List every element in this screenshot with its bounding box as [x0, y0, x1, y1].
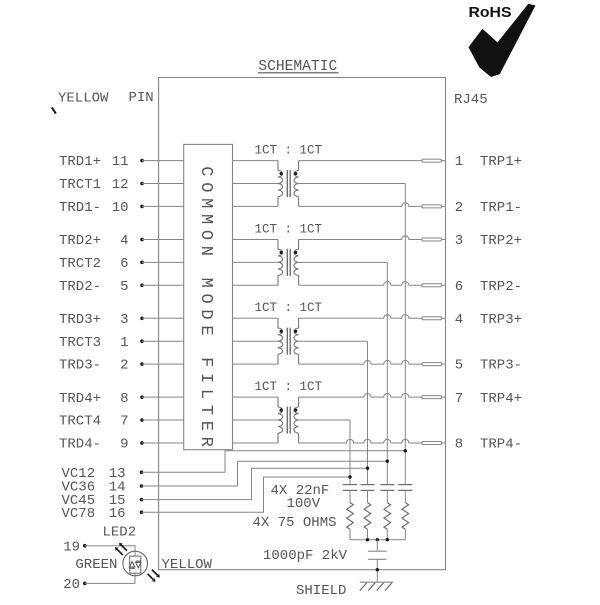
wire termination rail: [350, 539, 405, 541]
wire filter to T2 primary bottom: [233, 284, 279, 286]
svg-text:TRP1-: TRP1-: [480, 200, 522, 216]
svg-text:2: 2: [455, 200, 463, 216]
wire T1 secondary top to RJ45: [299, 160, 422, 162]
wire filter to T1 primary CT: [233, 183, 282, 185]
wire T1 secondary CT: [296, 183, 406, 185]
node pin 20 dot: [83, 582, 87, 586]
wire T3 secondary bottom to RJ45: [299, 361, 422, 365]
pin label TRCT4: [59, 414, 101, 430]
svg-text:2: 2: [120, 358, 128, 374]
pin number 6 (RJ45): [455, 279, 463, 295]
svg-text:1CT : 1CT: 1CT : 1CT: [255, 222, 323, 236]
svg-text:19: 19: [63, 539, 80, 555]
label YELLOW (bottom): [162, 557, 213, 573]
pin label TRD4+: [59, 391, 101, 407]
svg-text:TRCT3: TRCT3: [59, 335, 101, 351]
wire pin 11 (TRD1+) to filter: [142, 160, 184, 162]
wire pin 6 (TRCT2) to filter: [142, 261, 184, 263]
node TRCT3 pin dot: [140, 339, 144, 343]
value 1CT : 1CT (T4): [255, 380, 323, 394]
LED LED2 (bi-color): [123, 551, 148, 576]
wire T3 CT bus (vertical): [367, 341, 369, 484]
pin label TRD4-: [59, 437, 101, 453]
label PIN: [129, 90, 154, 106]
schematic title: [258, 59, 339, 75]
resistor R1 75 OHM: [402, 503, 409, 540]
RJ45 pad pin 2: [422, 205, 446, 208]
svg-text:7: 7: [120, 414, 128, 430]
pin number 5 (RJ45): [455, 358, 463, 374]
pin label VC78: [62, 506, 96, 522]
wire T2 secondary top to RJ45: [299, 236, 422, 240]
wire pin 10 (TRD1-) to filter: [142, 205, 184, 207]
wire T2 secondary bottom to RJ45: [299, 282, 422, 286]
pin number 14: [109, 480, 126, 496]
svg-text:TRD1-: TRD1-: [59, 200, 101, 216]
pin number 20: [63, 577, 80, 593]
svg-text:TRD3-: TRD3-: [59, 358, 101, 374]
node TRCT4 pin dot: [140, 418, 144, 422]
transformer T3: [278, 318, 299, 364]
RoHS logo: [469, 4, 536, 77]
pin label VC12: [62, 466, 96, 482]
transformer T2: [278, 239, 299, 285]
value 4X 22nF: [271, 483, 330, 499]
RJ45 pad pin 1: [422, 159, 446, 162]
label TRP4+: [480, 391, 522, 407]
pin number 12: [112, 177, 129, 193]
label TRP1+: [480, 154, 522, 170]
svg-text:1CT : 1CT: 1CT : 1CT: [255, 143, 323, 157]
value 4X 75 OHMS: [253, 515, 337, 531]
pin number 16: [109, 506, 126, 522]
value 1CT : 1CT (T2): [255, 222, 323, 236]
label SHIELD: [296, 583, 346, 599]
pin label TRD3-: [59, 358, 101, 374]
capacitor C3 22nF: [361, 485, 375, 503]
capacitor C2 22nF: [380, 485, 394, 503]
resistor R4 75 OHM: [347, 503, 354, 540]
wire filter to T3 primary bottom: [233, 363, 279, 365]
svg-text:3: 3: [455, 233, 463, 249]
capacitor C5 1000pF 2kV: [368, 540, 386, 583]
node TRD2+ pin dot: [140, 238, 144, 242]
node VC36 pin dot: [140, 484, 144, 488]
pin label TRCT2: [59, 256, 101, 272]
svg-text:12: 12: [112, 177, 129, 193]
node VC45 pin dot: [140, 498, 144, 502]
svg-text:TRP4+: TRP4+: [480, 391, 522, 407]
pin label TRCT1: [59, 177, 101, 193]
pin number 3: [120, 312, 128, 328]
svg-text:3: 3: [120, 312, 128, 328]
label RJ45: [454, 92, 488, 108]
wire pin 20 to LED2: [85, 573, 135, 583]
wire T1 CT bus (vertical): [404, 184, 406, 485]
pin number 4: [120, 233, 128, 249]
wire pin 1 (TRCT3) to filter: [142, 340, 184, 342]
svg-text:4: 4: [455, 312, 463, 328]
wire filter to T4 primary bottom: [233, 442, 279, 444]
label TRP2+: [480, 233, 522, 249]
wire filter to T2 primary top: [233, 238, 279, 240]
RJ45 pad pin 8: [422, 441, 446, 444]
wire pin 7 (TRCT4) to filter: [142, 419, 184, 421]
junction shield net on box edge: [376, 568, 379, 571]
label TRP3-: [480, 358, 522, 374]
pin label TRD2+: [59, 233, 101, 249]
pin number 13: [109, 466, 126, 482]
wire pin 12 (TRCT1) to filter: [142, 183, 184, 185]
RJ45 pad pin 4: [422, 317, 446, 320]
RJ45 pad pin 5: [422, 363, 446, 366]
value 1CT : 1CT (T3): [255, 301, 323, 315]
pin number 9: [120, 437, 128, 453]
svg-text:VC78: VC78: [62, 506, 96, 522]
svg-text:9: 9: [120, 437, 128, 453]
svg-text:SHIELD: SHIELD: [296, 583, 346, 599]
pin label TRD2-: [59, 279, 101, 295]
wire pin 3 (TRD3+) to filter: [142, 317, 184, 319]
wire T1 secondary bottom to RJ45: [299, 203, 422, 207]
svg-text:RoHS: RoHS: [469, 5, 512, 21]
node pin 19 dot: [83, 544, 87, 548]
label GREEN: [75, 557, 117, 573]
node TRD4+ pin dot: [140, 395, 144, 399]
pin number 2 (RJ45): [455, 200, 463, 216]
label TRP4-: [480, 437, 522, 453]
svg-text:TRCT2: TRCT2: [59, 256, 101, 272]
node VC78 pin dot: [140, 510, 144, 514]
pin number 19: [63, 539, 80, 555]
node TRD3- pin dot: [140, 362, 144, 366]
wire filter to T3 primary CT: [233, 340, 282, 342]
transformer T4: [278, 397, 299, 443]
svg-text:100V: 100V: [287, 496, 321, 512]
junction rail-bus3: [386, 538, 389, 541]
LED2 green emission arrows: [115, 543, 127, 555]
pin label LED2: [103, 524, 137, 540]
svg-text:LED2: LED2: [103, 524, 137, 540]
RJ45 pad pin 6: [422, 284, 446, 287]
resistor R2 75 OHM: [384, 503, 391, 540]
node TRCT1 pin dot: [140, 182, 144, 186]
junction VC12 on bus: [404, 449, 407, 452]
pin number 1 (RJ45): [455, 154, 463, 170]
pin number 15: [109, 493, 126, 509]
svg-text:TRP2+: TRP2+: [480, 233, 522, 249]
svg-text:TRD4-: TRD4-: [59, 437, 101, 453]
svg-text:YELLOW: YELLOW: [58, 91, 109, 107]
svg-text:6: 6: [455, 279, 463, 295]
svg-text:5: 5: [120, 279, 128, 295]
wire pin 2 (TRD3-) to filter: [142, 363, 184, 365]
pin number 3 (RJ45): [455, 233, 463, 249]
svg-text:RJ45: RJ45: [454, 92, 488, 108]
LED2 yellow emission arrows: [148, 570, 160, 582]
svg-text:TRP1+: TRP1+: [480, 154, 522, 170]
svg-text:8: 8: [455, 437, 463, 453]
value 100V: [287, 496, 321, 512]
pin number 10: [112, 200, 129, 216]
pin label TRD1-: [59, 200, 101, 216]
ground SHIELD (chassis): [360, 582, 394, 590]
svg-text:16: 16: [109, 506, 126, 522]
arrow tick below YELLOW: [52, 107, 56, 113]
RJ45 pad pin 7: [422, 396, 446, 399]
pin number 6: [120, 256, 128, 272]
junction rail-cap feed: [376, 538, 379, 541]
value 1CT : 1CT (T1): [255, 143, 323, 157]
node TRD4- pin dot: [140, 441, 144, 445]
wire pin 4 (TRD2+) to filter: [142, 238, 184, 240]
svg-text:1CT : 1CT: 1CT : 1CT: [255, 301, 323, 315]
wire filter to T3 primary top: [233, 317, 279, 319]
wire VC78 to CT bus: [142, 477, 351, 512]
node TRD1+ pin dot: [140, 159, 144, 163]
svg-text:TRP3+: TRP3+: [480, 312, 522, 328]
pin number 1: [120, 335, 128, 351]
svg-text:TRCT1: TRCT1: [59, 177, 101, 193]
wire T2 CT bus (vertical): [386, 262, 388, 484]
svg-text:TRP3-: TRP3-: [480, 358, 522, 374]
pin number 7: [120, 414, 128, 430]
pin label VC36: [62, 480, 96, 496]
wire VC12 to CT bus: [142, 451, 406, 472]
wire pin 9 (TRD4-) to filter: [142, 442, 184, 444]
pin number 2: [120, 358, 128, 374]
label TRP2-: [480, 279, 522, 295]
svg-text:TRP4-: TRP4-: [480, 437, 522, 453]
svg-text:TRD2+: TRD2+: [59, 233, 101, 249]
label TRP3+: [480, 312, 522, 328]
wire filter to T1 primary top: [233, 160, 279, 162]
svg-text:8: 8: [120, 391, 128, 407]
svg-text:TRD2-: TRD2-: [59, 279, 101, 295]
capacitor C1 22nF: [398, 485, 412, 503]
svg-text:4X 75 OHMS: 4X 75 OHMS: [253, 515, 337, 531]
junction VC78 on bus: [348, 475, 351, 478]
transformer T1: [278, 161, 299, 207]
pin number 7 (RJ45): [455, 391, 463, 407]
wire pin 8 (TRD4+) to filter: [142, 396, 184, 398]
node VC12 pin dot: [140, 470, 144, 474]
label TRP1-: [480, 200, 522, 216]
pin label TRD1+: [59, 154, 101, 170]
svg-text:1: 1: [455, 154, 463, 170]
svg-text:PIN: PIN: [129, 90, 154, 106]
svg-text:TRD1+: TRD1+: [59, 154, 101, 170]
RJ45 pad pin 3: [422, 238, 446, 241]
svg-text:11: 11: [112, 154, 129, 170]
wire filter to T4 primary top: [233, 396, 279, 398]
svg-text:7: 7: [455, 391, 463, 407]
pin number 5: [120, 279, 128, 295]
svg-text:1: 1: [120, 335, 128, 351]
pin number 8: [120, 391, 128, 407]
svg-text:TRD4+: TRD4+: [59, 391, 101, 407]
svg-text:1CT : 1CT: 1CT : 1CT: [255, 380, 323, 394]
label YELLOW (top): [58, 91, 109, 107]
svg-text:GREEN: GREEN: [75, 557, 117, 573]
wire T3 secondary CT: [296, 340, 368, 342]
svg-text:6: 6: [120, 256, 128, 272]
wire T3 secondary top to RJ45: [299, 315, 422, 319]
node TRD2- pin dot: [140, 283, 144, 287]
capacitor C4 22nF: [343, 485, 357, 503]
svg-text:TRP2-: TRP2-: [480, 279, 522, 295]
wire filter to T2 primary CT: [233, 261, 282, 263]
node TRCT2 pin dot: [140, 261, 144, 265]
resistor R3 75 OHM: [364, 503, 371, 540]
pin label TRCT3: [59, 335, 101, 351]
junction VC45 on bus: [366, 467, 369, 470]
node TRD3+ pin dot: [140, 317, 144, 321]
svg-text:COMMON MODE FILTER: COMMON MODE FILTER: [196, 166, 215, 452]
wire VC45 to CT bus: [142, 468, 368, 499]
svg-text:5: 5: [455, 358, 463, 374]
junction rail-bus2: [366, 538, 369, 541]
pin label TRD3+: [59, 312, 101, 328]
wire T4 secondary bottom to RJ45: [299, 439, 422, 443]
pin number 8 (RJ45): [455, 437, 463, 453]
pin number 4 (RJ45): [455, 312, 463, 328]
wire T4 CT bus (vertical): [349, 420, 351, 485]
svg-text:20: 20: [63, 577, 80, 593]
svg-text:YELLOW: YELLOW: [162, 557, 213, 573]
pin number 11: [112, 154, 129, 170]
wire pin 19 to LED2: [85, 546, 135, 556]
pin label VC45: [62, 493, 96, 509]
wire filter to T1 primary bottom: [233, 205, 279, 207]
schematic boundary box: [159, 78, 446, 570]
wire VC36 to CT bus: [142, 461, 388, 486]
value 1000pF 2kV: [263, 548, 348, 564]
wire T4 secondary CT: [296, 419, 350, 421]
svg-text:10: 10: [112, 200, 129, 216]
svg-text:1000pF 2kV: 1000pF 2kV: [263, 548, 348, 564]
wire T2 secondary CT: [296, 261, 388, 263]
common mode filter U1: [184, 144, 233, 452]
svg-text:TRCT4: TRCT4: [59, 414, 101, 430]
junction VC36 on bus: [386, 460, 389, 463]
svg-text:TRD3+: TRD3+: [59, 312, 101, 328]
wire filter to T4 primary CT: [233, 419, 282, 421]
wire T4 secondary top to RJ45: [299, 394, 422, 398]
node TRD1- pin dot: [140, 205, 144, 209]
svg-text:4: 4: [120, 233, 128, 249]
wire pin 5 (TRD2-) to filter: [142, 284, 184, 286]
